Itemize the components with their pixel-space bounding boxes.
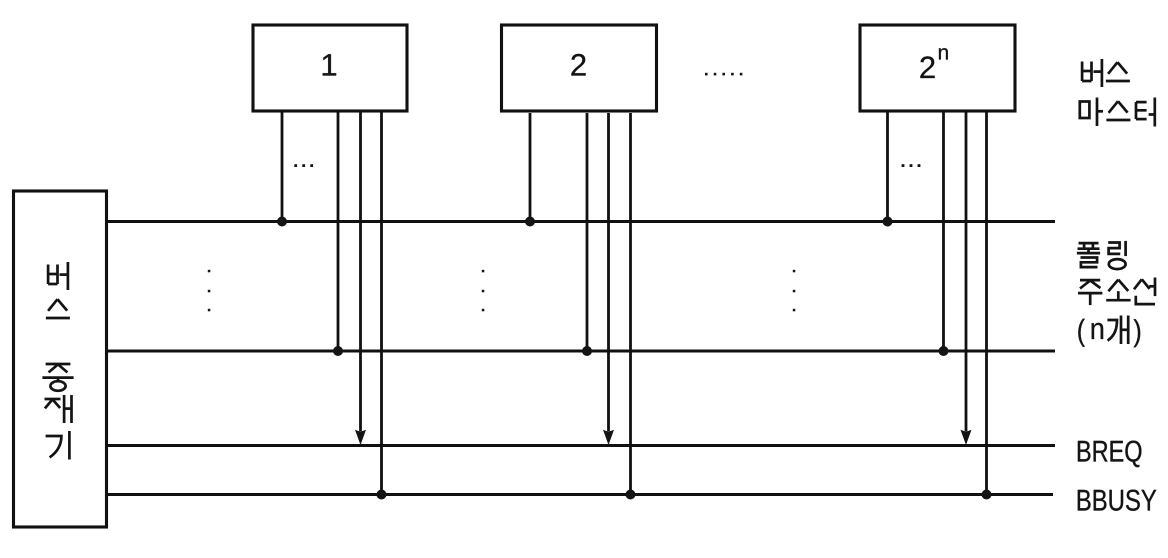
right label: 버스 마스터 [1082,59,1102,87]
box 2^n BREQ wire [965,113,968,432]
ellipsis between box 2 and box 2^n [705,73,742,76]
box 1 label [323,54,336,75]
right label: 폴링 주소선 (n개) [1077,243,1100,267]
box 2^n BBUSY wire [985,113,988,495]
box2 drop wire to poll line 2 [586,113,589,351]
junction dot box2/BBUSY [626,490,636,500]
box 2^n ellipsis dots [902,164,921,167]
box2 drop wire to poll line 1 [529,113,532,222]
box1 drop wire to poll line 2 [337,113,340,352]
box 2^n drop wire to poll line 2 [942,113,945,352]
box1 BBUSY wire [380,113,383,495]
junction dot box1/BBUSY [377,490,387,500]
junction dot box1/poll1 [277,217,287,227]
BBUSY line [107,493,1053,496]
box2 BBUSY wire [629,113,632,495]
junction dot box2^n/poll1 [883,217,893,227]
arbiter label char 중 [42,364,73,391]
box1 BREQ arrowhead [355,430,366,445]
box 2^n drop wire to poll line 1 [886,113,889,222]
box2 BREQ arrowhead [603,430,614,445]
right label: BREQ [1078,441,1142,468]
arbiter label char 버 [48,262,68,290]
box1 BREQ wire [359,113,362,432]
box2 BREQ wire [607,113,610,431]
box1 drop wire to poll line 1 [281,113,284,222]
box 2^n label [920,56,934,78]
vertical ellipsis right [793,270,796,312]
polling address line 1 [107,220,1055,223]
bus arbiter box [14,191,107,527]
bus master box 2^n [860,25,1015,111]
arbiter label char 스 [46,299,70,318]
right label: BBUSY [1078,490,1157,511]
bus master box 2 [502,25,657,111]
arbiter label char 재 [45,395,72,423]
junction dot box2/poll2 [582,346,592,356]
vertical ellipsis left [208,270,211,312]
vertical ellipsis middle [482,270,485,312]
box 2^n BREQ arrowhead [961,430,972,445]
junction dot box2^n/BBUSY [982,490,992,500]
box1 ellipsis dots [294,164,313,167]
junction dot box2^n/poll2 [939,346,949,356]
box 2 label [571,54,585,76]
BREQ line [107,444,1055,447]
polling address line 2 [107,350,1055,353]
bus master box 1 [253,25,407,111]
junction dot box1/poll2 [333,346,343,356]
arbiter label char 기 [46,431,70,460]
junction dot box2/poll1 [525,217,535,227]
